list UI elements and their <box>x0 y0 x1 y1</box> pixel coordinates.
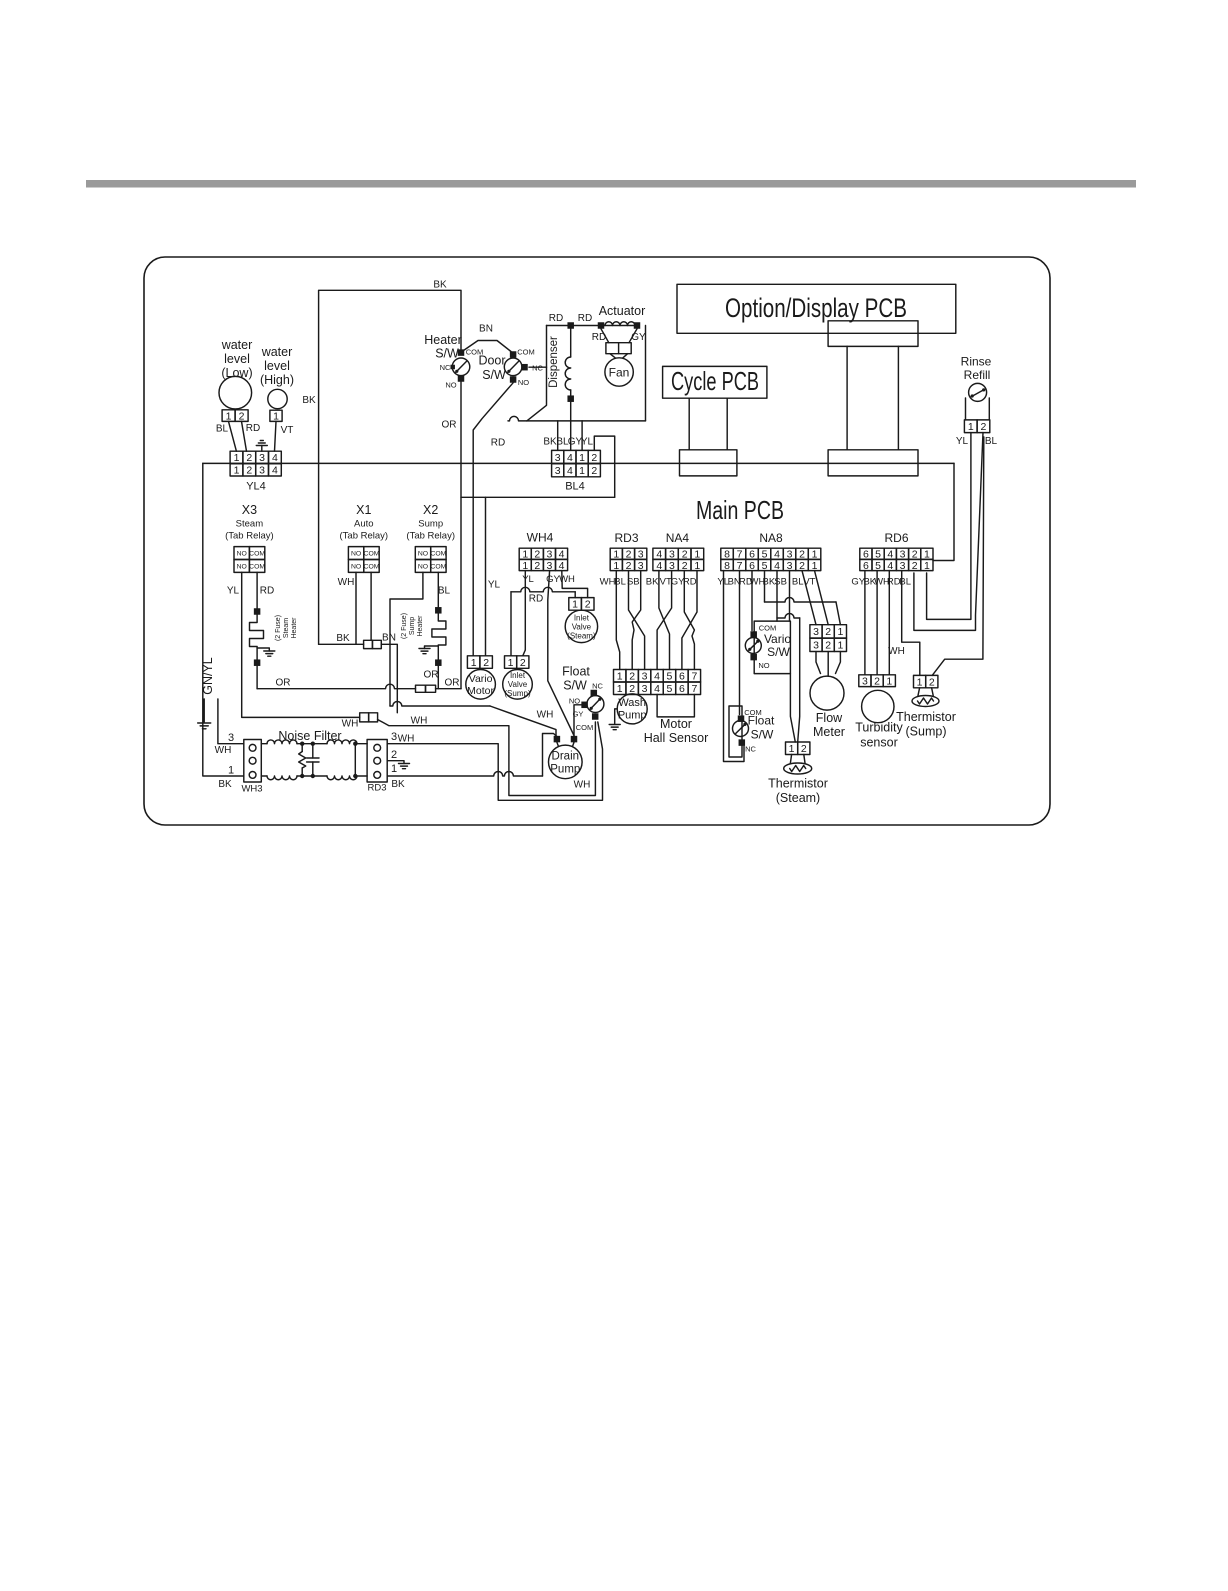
svg-text:3: 3 <box>259 465 265 477</box>
svg-text:COM: COM <box>430 551 446 558</box>
svg-text:(Tab Relay): (Tab Relay) <box>225 531 274 542</box>
svg-text:2: 2 <box>520 657 526 669</box>
svg-text:1: 1 <box>572 599 578 611</box>
svg-text:BL: BL <box>438 586 451 597</box>
svg-text:Pump: Pump <box>618 710 647 722</box>
svg-text:RD6: RD6 <box>884 531 908 545</box>
svg-text:4: 4 <box>567 452 573 464</box>
svg-text:BN: BN <box>382 633 396 644</box>
svg-text:3: 3 <box>555 465 561 477</box>
svg-text:1: 1 <box>228 765 234 777</box>
svg-text:5: 5 <box>667 683 673 695</box>
svg-text:WH: WH <box>537 710 554 721</box>
svg-text:Hall Sensor: Hall Sensor <box>644 731 709 745</box>
svg-text:Steam: Steam <box>283 618 290 638</box>
svg-text:YL: YL <box>956 436 969 447</box>
svg-text:2: 2 <box>246 452 252 464</box>
svg-text:Steam: Steam <box>236 519 264 530</box>
svg-text:Main PCB: Main PCB <box>696 495 784 525</box>
svg-text:4: 4 <box>272 465 278 477</box>
svg-text:Thermistor: Thermistor <box>896 710 956 724</box>
svg-text:SB: SB <box>774 577 787 588</box>
svg-text:NA8: NA8 <box>759 531 783 545</box>
svg-text:3: 3 <box>813 626 819 638</box>
svg-text:1: 1 <box>694 560 700 572</box>
svg-text:Actuator: Actuator <box>599 304 646 318</box>
svg-text:Fan: Fan <box>609 366 630 380</box>
svg-text:OR: OR <box>442 420 457 431</box>
svg-text:Valve: Valve <box>572 623 592 632</box>
svg-text:BK: BK <box>391 779 405 790</box>
svg-text:1: 1 <box>924 560 930 572</box>
svg-text:X2: X2 <box>423 503 438 517</box>
svg-text:Motor: Motor <box>467 685 494 697</box>
svg-text:Pump: Pump <box>550 764 580 776</box>
svg-text:level: level <box>224 352 250 366</box>
svg-text:NC: NC <box>440 363 451 372</box>
svg-text:1: 1 <box>837 640 843 652</box>
svg-text:Flow: Flow <box>816 711 843 725</box>
svg-text:NC: NC <box>745 745 756 754</box>
svg-text:WH4: WH4 <box>527 531 554 545</box>
svg-text:Sump: Sump <box>409 617 416 635</box>
svg-text:NC: NC <box>532 364 543 373</box>
svg-text:Motor: Motor <box>660 717 692 731</box>
svg-text:1: 1 <box>837 626 843 638</box>
svg-text:Meter: Meter <box>813 725 845 739</box>
svg-text:(Tab Relay): (Tab Relay) <box>406 531 455 542</box>
svg-text:NC: NC <box>592 682 603 691</box>
svg-text:3: 3 <box>669 560 675 572</box>
svg-text:1: 1 <box>471 657 477 669</box>
svg-text:3: 3 <box>642 671 648 683</box>
svg-text:2: 2 <box>825 640 831 652</box>
svg-text:sensor: sensor <box>860 736 898 750</box>
svg-text:Inlet: Inlet <box>510 671 526 680</box>
svg-text:2: 2 <box>929 676 935 688</box>
svg-text:1: 1 <box>886 675 892 687</box>
svg-text:4: 4 <box>567 465 573 477</box>
svg-text:1: 1 <box>579 465 585 477</box>
svg-text:S/W: S/W <box>435 347 459 361</box>
svg-text:Auto: Auto <box>354 519 374 530</box>
svg-text:WH: WH <box>215 745 232 756</box>
svg-text:1: 1 <box>226 410 232 422</box>
svg-text:RD3: RD3 <box>614 531 638 545</box>
svg-text:RD: RD <box>260 586 274 597</box>
svg-text:3: 3 <box>228 732 234 744</box>
svg-text:NO: NO <box>418 564 428 571</box>
svg-text:NO: NO <box>237 551 247 558</box>
svg-text:2: 2 <box>981 421 987 433</box>
svg-text:WH: WH <box>888 646 905 657</box>
svg-text:Float: Float <box>748 714 775 728</box>
svg-text:BL: BL <box>216 424 229 435</box>
svg-text:6: 6 <box>679 683 685 695</box>
svg-text:Heater: Heater <box>424 333 462 347</box>
svg-text:Heater: Heater <box>291 617 298 639</box>
svg-text:GN/YL: GN/YL <box>201 657 215 695</box>
svg-text:water: water <box>221 338 253 352</box>
svg-text:YL4: YL4 <box>246 481 266 493</box>
svg-text:2: 2 <box>874 675 880 687</box>
svg-text:Wash: Wash <box>618 697 646 709</box>
svg-text:S/W: S/W <box>482 368 506 382</box>
svg-text:BK: BK <box>302 395 316 406</box>
svg-text:BK: BK <box>433 280 447 291</box>
svg-text:RD: RD <box>578 313 592 324</box>
svg-text:Valve: Valve <box>508 680 528 689</box>
svg-text:Rinse: Rinse <box>961 355 992 369</box>
svg-text:4: 4 <box>887 560 893 572</box>
svg-text:WH: WH <box>411 716 428 727</box>
svg-text:NA4: NA4 <box>666 531 690 545</box>
svg-text:6: 6 <box>679 671 685 683</box>
svg-text:YL: YL <box>522 574 534 585</box>
svg-text:(2 Fuse): (2 Fuse) <box>275 615 282 641</box>
svg-text:Heater: Heater <box>417 615 424 637</box>
svg-text:WH: WH <box>600 577 616 588</box>
svg-text:YL: YL <box>488 580 501 591</box>
svg-text:3: 3 <box>862 675 868 687</box>
svg-text:(Steam): (Steam) <box>776 791 820 805</box>
svg-text:1: 1 <box>508 657 514 669</box>
svg-text:Dispenser: Dispenser <box>548 336 560 388</box>
svg-text:NO: NO <box>418 551 428 558</box>
svg-text:WH3: WH3 <box>241 784 262 795</box>
svg-text:BK: BK <box>218 779 232 790</box>
svg-text:(High): (High) <box>260 373 294 387</box>
svg-text:WH: WH <box>342 719 359 730</box>
svg-text:RD: RD <box>246 423 260 434</box>
svg-text:2: 2 <box>801 743 807 755</box>
svg-text:COM: COM <box>364 564 380 571</box>
svg-text:RD3: RD3 <box>367 783 386 794</box>
svg-text:4: 4 <box>272 452 278 464</box>
svg-text:YL: YL <box>227 586 240 597</box>
svg-text:COM: COM <box>430 564 446 571</box>
svg-text:Cycle PCB: Cycle PCB <box>671 366 759 396</box>
svg-text:(Sump): (Sump) <box>906 725 947 739</box>
svg-text:COM: COM <box>576 723 594 732</box>
svg-text:BK: BK <box>336 633 350 644</box>
svg-text:2: 2 <box>825 626 831 638</box>
svg-text:4: 4 <box>654 671 660 683</box>
svg-text:Float: Float <box>562 665 590 679</box>
svg-text:X1: X1 <box>356 503 371 517</box>
svg-text:COM: COM <box>249 551 265 558</box>
svg-text:2: 2 <box>391 749 397 761</box>
svg-text:Refill: Refill <box>964 368 991 382</box>
svg-text:BK: BK <box>543 437 557 448</box>
svg-text:BK: BK <box>646 577 659 588</box>
svg-text:1: 1 <box>579 452 585 464</box>
svg-text:7: 7 <box>691 671 697 683</box>
svg-text:COM: COM <box>364 551 380 558</box>
svg-text:1: 1 <box>917 676 923 688</box>
svg-text:RD: RD <box>529 594 543 605</box>
svg-text:4: 4 <box>656 560 662 572</box>
svg-text:WH: WH <box>338 577 355 588</box>
svg-text:BL: BL <box>985 436 998 447</box>
svg-text:BL: BL <box>792 577 804 588</box>
svg-text:OR: OR <box>424 670 439 681</box>
svg-text:NO: NO <box>518 378 529 387</box>
svg-text:2: 2 <box>591 452 597 464</box>
svg-text:NO: NO <box>351 564 361 571</box>
svg-text:Option/Display PCB: Option/Display PCB <box>725 293 907 323</box>
svg-text:NO: NO <box>237 564 247 571</box>
svg-text:2: 2 <box>585 599 591 611</box>
svg-text:(Tab Relay): (Tab Relay) <box>340 531 389 542</box>
svg-text:(2 Fuse): (2 Fuse) <box>401 613 408 639</box>
svg-text:3: 3 <box>391 731 397 743</box>
svg-text:2: 2 <box>483 657 489 669</box>
svg-text:Door: Door <box>478 354 505 368</box>
svg-text:S/W: S/W <box>563 679 587 693</box>
svg-text:S/W: S/W <box>751 728 774 742</box>
svg-text:Drain: Drain <box>552 751 579 763</box>
svg-text:2: 2 <box>591 465 597 477</box>
svg-text:6: 6 <box>863 560 869 572</box>
svg-text:3: 3 <box>259 452 265 464</box>
svg-text:(Low): (Low) <box>221 366 252 380</box>
svg-text:3: 3 <box>813 640 819 652</box>
svg-text:NO: NO <box>351 551 361 558</box>
svg-text:Vario: Vario <box>764 632 791 646</box>
svg-text:BN: BN <box>479 324 493 335</box>
svg-text:8: 8 <box>724 560 730 572</box>
svg-text:1: 1 <box>789 743 795 755</box>
svg-text:BL4: BL4 <box>565 481 585 493</box>
svg-text:(Steam): (Steam) <box>567 632 596 641</box>
svg-text:5: 5 <box>667 671 673 683</box>
svg-text:5: 5 <box>875 560 881 572</box>
svg-text:NO: NO <box>758 661 769 670</box>
svg-text:VT: VT <box>281 425 294 436</box>
svg-text:RD: RD <box>549 313 563 324</box>
svg-text:Inlet: Inlet <box>574 614 590 623</box>
svg-text:NO: NO <box>445 381 456 390</box>
svg-text:RD: RD <box>491 438 505 449</box>
svg-text:OR: OR <box>276 678 291 689</box>
svg-text:Vario: Vario <box>469 673 493 685</box>
svg-text:7: 7 <box>691 683 697 695</box>
svg-text:2: 2 <box>239 410 245 422</box>
svg-text:S/W: S/W <box>767 645 790 659</box>
svg-text:1: 1 <box>234 465 240 477</box>
svg-text:1: 1 <box>617 683 623 695</box>
svg-text:WH: WH <box>398 734 415 745</box>
svg-text:2: 2 <box>246 465 252 477</box>
svg-text:3: 3 <box>900 560 906 572</box>
svg-text:2: 2 <box>629 671 635 683</box>
svg-text:2: 2 <box>534 560 540 572</box>
svg-text:Thermistor: Thermistor <box>768 777 828 791</box>
svg-text:Sump: Sump <box>418 519 443 530</box>
svg-text:1: 1 <box>968 421 974 433</box>
svg-text:1: 1 <box>234 452 240 464</box>
svg-text:X3: X3 <box>242 503 257 517</box>
svg-text:(Sump): (Sump) <box>504 689 531 698</box>
svg-text:3: 3 <box>555 452 561 464</box>
svg-text:2: 2 <box>682 560 688 572</box>
svg-text:3: 3 <box>642 683 648 695</box>
svg-text:2: 2 <box>912 560 918 572</box>
svg-text:WH: WH <box>574 780 591 791</box>
svg-text:level: level <box>264 359 290 373</box>
svg-text:4: 4 <box>654 683 660 695</box>
svg-text:water: water <box>261 345 293 359</box>
svg-text:1: 1 <box>391 763 397 775</box>
svg-text:OR: OR <box>445 678 460 689</box>
svg-text:COM: COM <box>517 348 535 357</box>
svg-text:1: 1 <box>617 671 623 683</box>
svg-text:COM: COM <box>249 564 265 571</box>
